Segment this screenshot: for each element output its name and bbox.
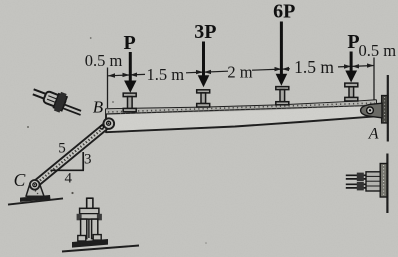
- beam strip hatch speckles: [108, 103, 375, 112]
- dimension line 2 m: [204, 70, 228, 73]
- dim arrowheads around load 3: [275, 67, 282, 71]
- load pad 1: [123, 93, 136, 112]
- clamp block: [80, 208, 99, 219]
- stray scan specks: [27, 126, 29, 128]
- dim arrowheads around load 2: [196, 70, 203, 74]
- legs: [81, 219, 87, 239]
- dimension extension line at A: [373, 58, 375, 100]
- dim arrowhead right at ext line A: [367, 63, 374, 67]
- dimension line 0.5 m (right): [352, 65, 374, 68]
- ground line: [62, 246, 139, 252]
- feet: [78, 236, 86, 242]
- force arrow P1: [124, 52, 136, 93]
- beam AB: [106, 100, 376, 132]
- strut BC: [30, 118, 114, 189]
- dim arrowheads around load 1: [123, 73, 130, 77]
- load pad 4: [345, 83, 358, 101]
- inset: pedestal support detail (bottom centre): [62, 198, 139, 252]
- pin at C: [33, 183, 37, 187]
- dimension line 0.5 m (left): [108, 74, 129, 77]
- pin at B: [107, 121, 111, 125]
- load pad 2: [197, 90, 210, 107]
- force arrow 6P: [276, 22, 288, 86]
- wall line: [386, 154, 388, 214]
- dim arrowhead left at ext line B: [108, 73, 115, 77]
- force arrow P4: [345, 52, 357, 83]
- upper pin: [346, 174, 366, 176]
- gusset bracket at A: [361, 103, 382, 118]
- wall line at A: [387, 75, 389, 142]
- dimension line 1.5 m (right): [282, 68, 290, 70]
- bolt dot near B: [100, 126, 104, 130]
- dimension line 1.5 m (left): [130, 73, 145, 76]
- wall plate at A: [382, 96, 388, 124]
- load pad 3: [276, 87, 289, 105]
- beam top hatched strip: [106, 100, 376, 114]
- force arrow 3P: [198, 42, 210, 88]
- pin at A: [367, 107, 374, 114]
- inset: clevis detail near B: [29, 82, 86, 120]
- bracket body: [366, 172, 380, 191]
- ground line at C: [8, 198, 63, 204]
- dim arrowheads around load 4: [344, 64, 351, 68]
- bolt ears: [77, 214, 82, 221]
- rod: [86, 198, 88, 215]
- lower pin: [346, 183, 366, 185]
- strut hatch speckles: [40, 128, 104, 181]
- inset: wall bracket detail (right): [346, 154, 388, 214]
- base plate: [72, 239, 108, 248]
- paper noise: [0, 0, 1, 1]
- wall plate: [380, 164, 387, 198]
- 3-4-5 triangle: [51, 152, 85, 170]
- dimension extension line at B: [107, 68, 109, 109]
- support pedestal at C: [8, 184, 63, 205]
- base plate at C: [20, 195, 51, 202]
